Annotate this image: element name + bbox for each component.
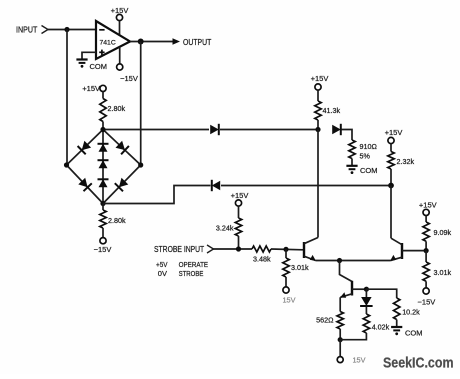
diode center 2 (points up) bbox=[98, 160, 109, 168]
resistor 2.32k with +15V bbox=[385, 128, 415, 186]
node STROBE INPUT label bbox=[154, 245, 204, 254]
resistor 4.02k bbox=[340, 307, 389, 340]
svg-text:OPERATE: OPERATE bbox=[179, 260, 209, 269]
svg-text:2.32k: 2.32k bbox=[397, 157, 415, 166]
svg-text:+5V: +5V bbox=[156, 260, 168, 269]
diode bridge top-left bbox=[78, 141, 92, 155]
junction bridge right node bbox=[138, 162, 143, 167]
text 0V STROBE bbox=[158, 269, 204, 278]
diode D (to 910 ohm, points right) bbox=[332, 124, 341, 135]
diode bridge bottom-left bbox=[78, 178, 92, 191]
svg-text:741C: 741C bbox=[100, 39, 116, 46]
svg-text:9.09k: 9.09k bbox=[434, 228, 452, 237]
output arrowhead bbox=[173, 38, 181, 45]
svg-text:−15V: −15V bbox=[120, 74, 138, 83]
svg-text:−15V: −15V bbox=[94, 245, 112, 254]
bridge diamond wires bbox=[67, 130, 141, 204]
svg-text:INPUT: INPUT bbox=[16, 26, 38, 35]
svg-text:3.48k: 3.48k bbox=[253, 255, 271, 264]
svg-text:3.01k: 3.01k bbox=[434, 268, 452, 277]
wire op-amp output bbox=[130, 41, 173, 43]
transistor Q2 (right of pair) bbox=[390, 238, 402, 261]
diode D (bias, points down) bbox=[360, 289, 373, 306]
text +5V OPERATE bbox=[156, 260, 208, 269]
ground COM at 10.2k bbox=[391, 327, 422, 338]
diode D (lower rail, points left) bbox=[212, 180, 220, 191]
junction common emitter node bbox=[337, 258, 342, 263]
svg-text:+15V: +15V bbox=[231, 191, 249, 200]
svg-text:+15V: +15V bbox=[311, 74, 329, 83]
wire strobe input bbox=[214, 248, 253, 250]
wire Q1 collector up to top rail bbox=[317, 130, 319, 238]
svg-text:15V: 15V bbox=[283, 295, 296, 304]
diode D (bridge top rail, points right) bbox=[210, 124, 219, 135]
resistor R 2.80k (top) bbox=[100, 92, 126, 130]
wire input to op-amp bbox=[48, 29, 96, 31]
junction bridge top node bbox=[100, 127, 105, 132]
wire Q2 collector up to 2.32k junction bbox=[390, 186, 392, 239]
junction divider node bbox=[424, 248, 429, 253]
wire output node down to bridge right node bbox=[140, 42, 142, 166]
op-amp -15V supply terminal bbox=[117, 47, 138, 83]
resistor 3.01k (strobe pulldown) bbox=[283, 249, 309, 287]
svg-text:5%: 5% bbox=[360, 152, 371, 161]
wire common emitters bbox=[316, 260, 391, 262]
wire bridge top node to right (to diode) bbox=[103, 129, 209, 131]
junction 2.32k node bbox=[388, 183, 394, 189]
junction input node bbox=[64, 27, 69, 32]
svg-text:10.2k: 10.2k bbox=[402, 308, 420, 317]
svg-text:15V: 15V bbox=[353, 356, 366, 365]
wire top rail diode to 41.3k junction bbox=[220, 129, 318, 131]
resistor 9.09k with +15V bbox=[419, 201, 452, 251]
terminal -15V (emitter) bbox=[337, 340, 365, 365]
svg-text:−15V: −15V bbox=[418, 298, 436, 307]
junction bridge left node bbox=[64, 162, 69, 167]
op-amp U1 741C bbox=[96, 21, 130, 59]
svg-text:+15V: +15V bbox=[385, 128, 403, 137]
wire 3.48k to Q1 base bbox=[271, 248, 303, 251]
wire input node down to bridge left node bbox=[66, 30, 68, 166]
svg-text:STROBE: STROBE bbox=[179, 269, 204, 278]
junction Q3 base node bbox=[364, 287, 369, 292]
junction bridge bottom node bbox=[100, 201, 105, 206]
node INPUT label bbox=[16, 26, 38, 35]
resistor 3.48k (horizontal) bbox=[252, 246, 271, 264]
resistor 10.2k bbox=[366, 289, 420, 326]
transistor Q1 (left of pair) bbox=[304, 238, 318, 261]
diode bridge bottom-right bbox=[115, 178, 129, 192]
wire Q3 base bbox=[352, 288, 366, 290]
resistor 562 ohm bbox=[316, 297, 343, 339]
junction strobe/3.24k node bbox=[236, 246, 241, 251]
junction 3.01k node bbox=[283, 247, 288, 252]
resistor R 2.80k (bottom) bbox=[100, 204, 126, 238]
svg-text:COM: COM bbox=[90, 62, 108, 71]
svg-text:2.80k: 2.80k bbox=[108, 104, 126, 113]
watermark SeekIC.com bbox=[383, 355, 454, 371]
ground COM at 910 ohm bbox=[346, 166, 377, 175]
resistor 3.01k (divider) bbox=[423, 251, 452, 288]
terminal -15V below bridge bbox=[94, 238, 112, 254]
strobe terminal chevron bbox=[207, 245, 214, 253]
resistor 2.80k top: +15V terminal bbox=[82, 84, 106, 93]
op-amp +15V supply terminal bbox=[111, 6, 129, 34]
junction output node bbox=[138, 39, 144, 45]
terminal -15V (divider) bbox=[418, 288, 436, 307]
wire diode to 910 ohm bbox=[342, 130, 353, 141]
terminal -15V (strobe pulldown) bbox=[283, 287, 296, 304]
svg-text:SeekIC.com: SeekIC.com bbox=[383, 355, 454, 371]
junction 562/4.02k node bbox=[338, 337, 343, 342]
svg-text:2.80k: 2.80k bbox=[108, 216, 126, 225]
node OUTPUT label bbox=[183, 38, 212, 47]
resistor 910 ohm 5% bbox=[349, 140, 378, 165]
wire lower rail to 2.32k junction bbox=[221, 185, 391, 187]
transistor Q3 (current sink) bbox=[340, 261, 353, 298]
svg-text:41.3k: 41.3k bbox=[323, 106, 341, 115]
junction 41.3k node bbox=[315, 127, 320, 132]
svg-text:COM: COM bbox=[360, 166, 378, 175]
wire op-amp + input to ground bbox=[82, 52, 96, 58]
diode center 3 (points up) bbox=[98, 179, 109, 187]
svg-text:4.02k: 4.02k bbox=[372, 322, 390, 331]
svg-text:COM: COM bbox=[405, 329, 423, 338]
svg-text:+15V: +15V bbox=[419, 201, 437, 210]
svg-text:562Ω: 562Ω bbox=[316, 316, 334, 325]
ground COM at op-amp bbox=[76, 60, 107, 72]
svg-text:STROBE INPUT: STROBE INPUT bbox=[154, 245, 204, 254]
resistor 41.3k with +15V bbox=[311, 74, 341, 130]
svg-text:0V: 0V bbox=[158, 269, 167, 278]
input terminal chevron bbox=[42, 26, 49, 34]
svg-text:OUTPUT: OUTPUT bbox=[183, 38, 212, 47]
diode center 1 (points up) bbox=[98, 144, 109, 152]
svg-text:3.24k: 3.24k bbox=[216, 223, 234, 232]
svg-text:+15V: +15V bbox=[82, 84, 100, 93]
svg-text:3.01k: 3.01k bbox=[291, 263, 309, 272]
wire Q2 base to divider bbox=[402, 250, 426, 252]
diode bridge top-right bbox=[116, 141, 129, 155]
wire bridge bottom to lower rail (step) bbox=[103, 186, 211, 204]
resistor 3.24k with +15V bbox=[216, 191, 248, 249]
svg-text:910Ω: 910Ω bbox=[360, 142, 378, 151]
